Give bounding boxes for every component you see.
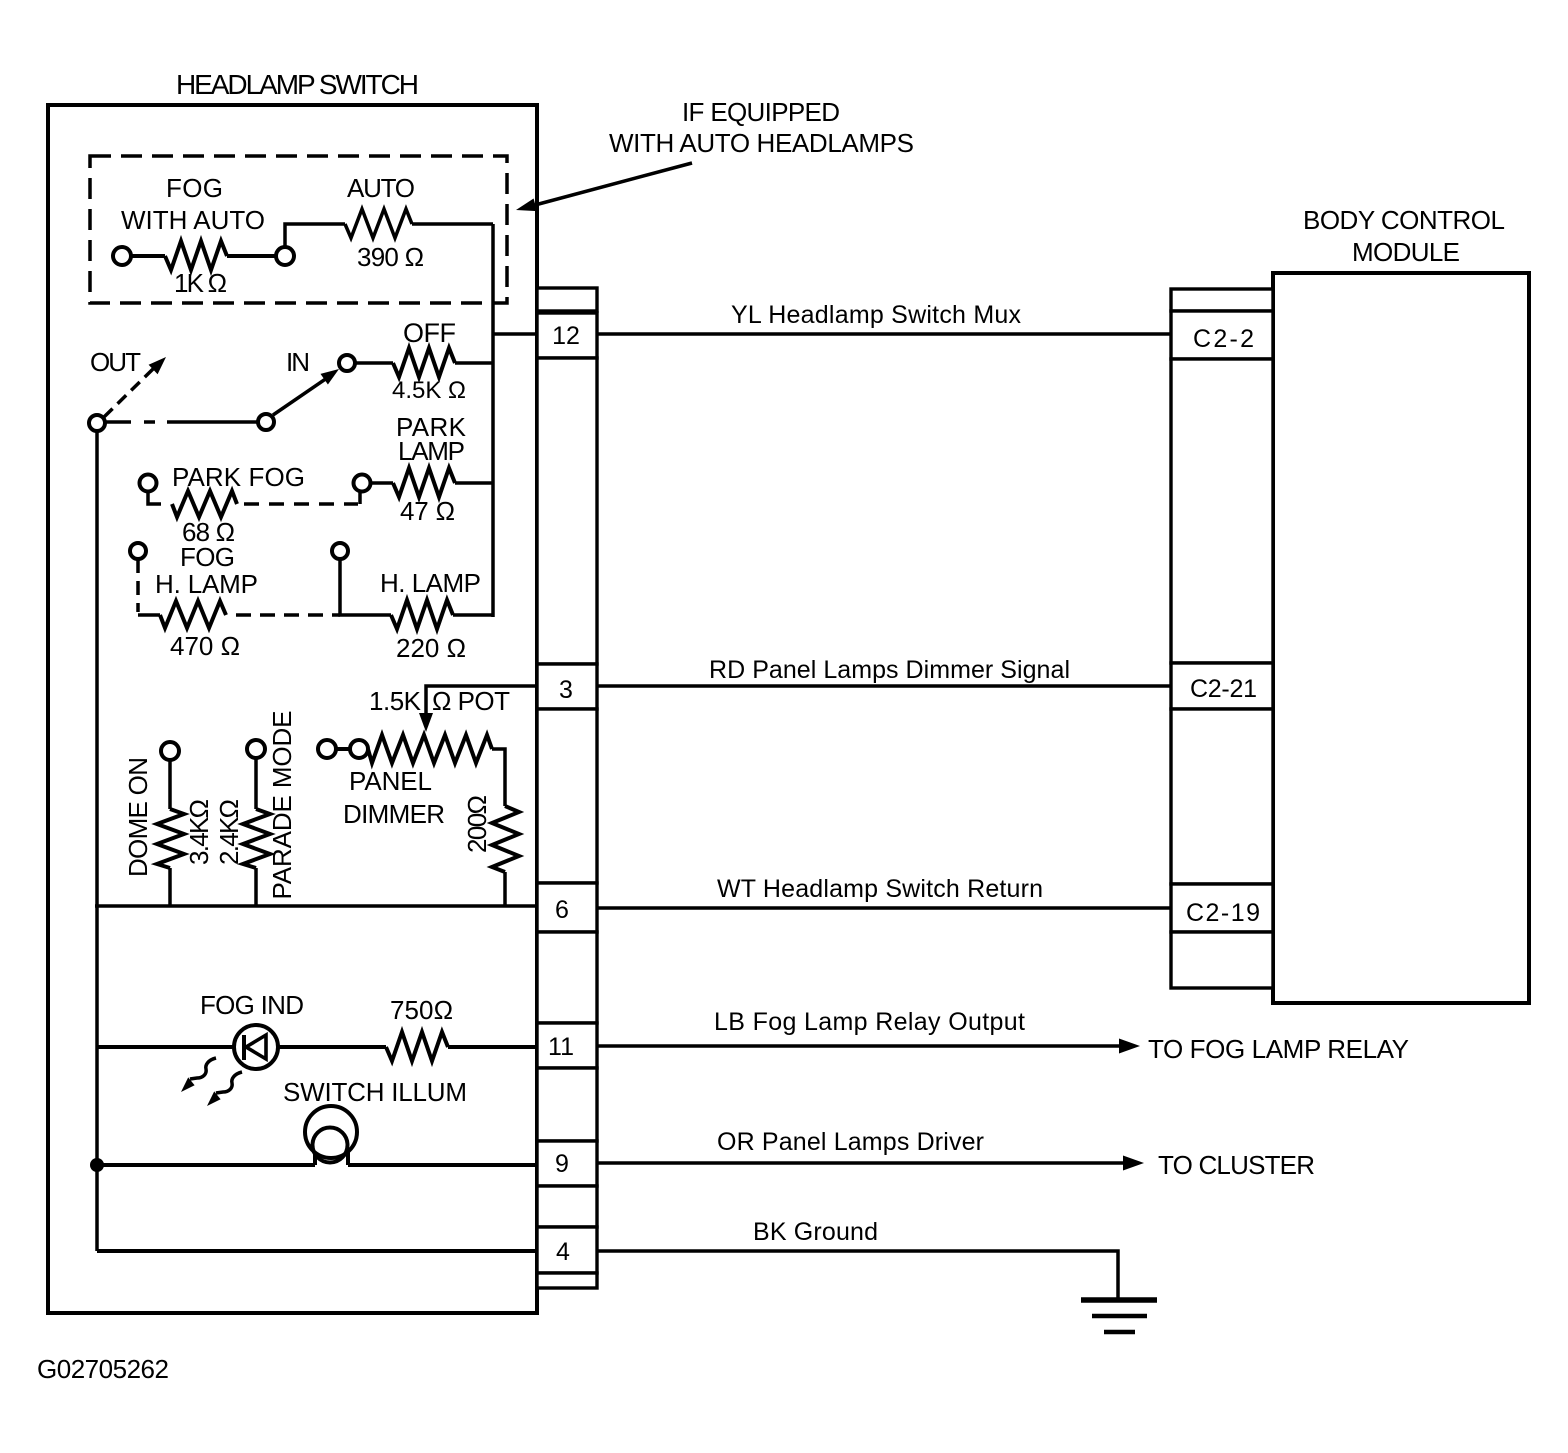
svg-text:TO FOG LAMP RELAY: TO FOG LAMP RELAY <box>1148 1034 1409 1064</box>
wire down from h lamp terminal <box>340 559 391 615</box>
svg-text:2.4KΩ: 2.4KΩ <box>214 799 244 865</box>
svg-text:4.5K Ω: 4.5K Ω <box>392 377 466 404</box>
svg-text:200Ω: 200Ω <box>462 795 492 853</box>
svg-text:YL Headlamp Switch Mux: YL Headlamp Switch Mux <box>731 301 1022 329</box>
connector segment <box>537 1186 597 1227</box>
svg-text:WT Headlamp Switch Return: WT Headlamp Switch Return <box>717 875 1043 903</box>
svg-text:LAMP: LAMP <box>398 436 465 466</box>
svg-text:OR Panel Lamps Driver: OR Panel Lamps Driver <box>717 1128 984 1156</box>
pot terminal circle right <box>350 740 368 758</box>
wire <box>453 613 493 617</box>
svg-text:SWITCH ILLUM: SWITCH ILLUM <box>283 1077 467 1107</box>
connector segment <box>537 709 597 883</box>
terminal circle park lamp <box>354 475 371 492</box>
BCM box <box>1273 273 1529 1003</box>
svg-text:C2-19: C2-19 <box>1186 899 1260 927</box>
svg-text:MODULE: MODULE <box>1352 237 1460 267</box>
terminal circle h lamp <box>332 543 348 559</box>
wire <box>278 1045 386 1049</box>
wire <box>254 868 258 906</box>
svg-text:Ω POT: Ω POT <box>432 686 510 716</box>
switch common vertical wire left <box>95 431 99 1251</box>
resistor 200 ohm <box>492 806 519 872</box>
BCM connector segment <box>1171 359 1273 663</box>
dashed corner <box>138 613 160 617</box>
annotation arrowhead <box>516 199 537 212</box>
parade terminal circle <box>247 740 265 758</box>
LED triangle <box>246 1035 266 1059</box>
svg-text:LB Fog Lamp Relay Output: LB Fog Lamp Relay Output <box>714 1008 1025 1036</box>
lamp stub left <box>313 1152 317 1165</box>
wire <box>97 1045 234 1049</box>
potentiometer resistor 1.5K <box>368 735 492 763</box>
svg-text:TO CLUSTER: TO CLUSTER <box>1158 1150 1315 1180</box>
svg-text:1K Ω: 1K Ω <box>174 268 227 298</box>
resistor 750 ohm <box>386 1032 448 1061</box>
svg-text:C2-2: C2-2 <box>1193 325 1254 353</box>
connector cap top <box>537 288 597 311</box>
ground symbol <box>1081 1297 1157 1303</box>
connector pin 4 <box>537 1227 597 1273</box>
resistor 68 ohm <box>172 491 237 517</box>
dashed auto-headlamps option box <box>90 156 507 303</box>
svg-text:6: 6 <box>555 896 569 924</box>
connector pin 9 <box>537 1141 597 1186</box>
resistor 1K ohm <box>165 241 227 270</box>
dashed wire 470 to h lamp <box>228 613 340 617</box>
wire <box>455 361 493 365</box>
connector segment <box>537 932 597 1023</box>
svg-text:FOG: FOG <box>180 542 235 572</box>
LED cathode bar <box>242 1035 246 1060</box>
connector segment <box>537 358 597 664</box>
switch OUT dashed throw arrow <box>104 369 153 417</box>
wire to pin 11 <box>448 1045 537 1049</box>
junction dot <box>90 1158 104 1172</box>
connector pin 12 <box>537 313 597 358</box>
wire <box>355 361 393 365</box>
wire LB fog lamp relay output <box>597 1044 1122 1048</box>
mux ladder vertical wire <box>491 224 495 617</box>
svg-text:WITH AUTO: WITH AUTO <box>121 205 265 235</box>
svg-text:HEADLAMP SWITCH: HEADLAMP SWITCH <box>176 69 419 100</box>
svg-text:12: 12 <box>552 322 580 350</box>
lamp base circle <box>313 1128 348 1163</box>
svg-text:4: 4 <box>556 1238 570 1266</box>
switch pole terminal circle <box>258 414 274 430</box>
resistor 4.5K ohm OFF <box>393 348 455 377</box>
wire <box>227 254 276 258</box>
wire RD panel lamps dimmer signal <box>597 684 1171 688</box>
svg-text:BODY CONTROL: BODY CONTROL <box>1303 205 1505 235</box>
BCM connector pin C2-19 <box>1171 884 1273 932</box>
svg-text:DOME ON: DOME ON <box>123 757 153 877</box>
wire <box>254 758 258 809</box>
svg-text:9: 9 <box>555 1150 569 1178</box>
svg-text:3: 3 <box>559 676 573 704</box>
BCM connector segment <box>1171 709 1273 884</box>
wire <box>455 481 493 485</box>
return bus wire to pin 6 <box>95 904 537 908</box>
dash-dot wire <box>106 420 131 424</box>
connector pin 3 <box>537 664 597 709</box>
wire to pin 12 <box>493 332 537 336</box>
connector pin 11 <box>537 1023 597 1068</box>
resistor 3.4K ohm <box>157 809 184 868</box>
terminal circle park fog <box>140 475 157 492</box>
BCM connector pin C2-2 <box>1171 311 1273 359</box>
dome terminal circle <box>161 742 179 760</box>
connector cap bottom <box>537 1273 597 1288</box>
resistor 2.4K ohm <box>243 809 270 868</box>
resistor 470 ohm <box>160 601 226 628</box>
BCM connector cap <box>1171 289 1273 311</box>
wire BK ground <box>597 1251 1118 1299</box>
wire YL headlamp switch mux <box>597 332 1171 336</box>
terminal circle fog h lamp <box>130 543 146 559</box>
svg-text:BK Ground: BK Ground <box>753 1218 878 1246</box>
LED indicator circle <box>234 1025 278 1069</box>
svg-text:DIMMER: DIMMER <box>343 799 445 829</box>
switch common terminal circle <box>89 415 105 431</box>
lamp bulb circle <box>305 1106 357 1158</box>
wire <box>97 1163 315 1167</box>
svg-text:1.5K: 1.5K <box>369 686 422 716</box>
svg-text:3.4KΩ: 3.4KΩ <box>184 799 214 865</box>
wire <box>371 481 393 485</box>
switch IN throw arrow <box>273 378 327 415</box>
resistor 47 ohm <box>393 468 455 497</box>
svg-text:WITH AUTO HEADLAMPS: WITH AUTO HEADLAMPS <box>609 128 914 158</box>
wire <box>336 747 350 751</box>
wiper arrowhead <box>419 713 433 732</box>
wire <box>412 222 493 226</box>
stub <box>148 491 161 504</box>
svg-text:PARADE MODE: PARADE MODE <box>267 711 297 900</box>
svg-text:FOG: FOG <box>166 173 223 203</box>
svg-text:FOG IND: FOG IND <box>200 990 304 1020</box>
wire WT headlamp switch return <box>597 906 1171 910</box>
svg-text:G02705262: G02705262 <box>37 1354 169 1384</box>
LED light ray arrow 1 <box>190 1058 216 1079</box>
headlamp switch enclosure box <box>48 105 537 1313</box>
wire <box>168 868 172 906</box>
svg-text:RD Panel Lamps Dimmer Signal: RD Panel Lamps Dimmer Signal <box>709 656 1070 684</box>
svg-text:H. LAMP: H. LAMP <box>380 568 481 598</box>
wire up to park lamp terminal <box>358 491 362 504</box>
terminal circle fog-with-auto right <box>276 247 294 265</box>
terminal circle fog-with-auto left <box>113 247 131 265</box>
BCM connector segment <box>1171 932 1273 988</box>
svg-text:470 Ω: 470 Ω <box>170 631 240 661</box>
dashed wire park fog to park lamp <box>244 502 358 506</box>
LED light ray arrow 2 <box>216 1072 242 1093</box>
resistor 390 ohm <box>345 209 412 238</box>
svg-text:750Ω: 750Ω <box>390 995 453 1025</box>
wire auto branch up <box>285 224 345 247</box>
svg-text:IN: IN <box>286 347 310 377</box>
resistor 220 ohm <box>391 600 453 629</box>
pot terminal circle left <box>318 740 336 758</box>
svg-text:11: 11 <box>548 1033 574 1061</box>
potentiometer wiper wire to pin 3 <box>426 686 537 716</box>
svg-text:220 Ω: 220 Ω <box>396 633 466 663</box>
lamp stub right <box>346 1152 350 1165</box>
connector segment <box>537 1068 597 1141</box>
svg-text:C2-21: C2-21 <box>1190 675 1257 703</box>
svg-text:IF EQUIPPED: IF EQUIPPED <box>682 97 840 127</box>
wire <box>131 254 165 258</box>
svg-text:OUT: OUT <box>90 347 141 377</box>
wire pot right elbow <box>492 749 505 806</box>
svg-text:H. LAMP: H. LAMP <box>155 569 258 599</box>
annotation arrow line <box>535 163 692 205</box>
svg-text:47 Ω: 47 Ω <box>400 496 455 526</box>
dashed stub down <box>136 559 140 612</box>
wire OR panel lamps driver <box>597 1161 1126 1165</box>
BCM connector pin C2-21 <box>1171 663 1273 709</box>
svg-text:PANEL: PANEL <box>349 766 432 796</box>
svg-text:AUTO: AUTO <box>347 173 415 203</box>
wire <box>168 760 172 809</box>
svg-text:390 Ω: 390 Ω <box>357 242 424 272</box>
svg-text:PARK FOG: PARK FOG <box>172 462 305 492</box>
wire 200 ohm to bus <box>503 872 507 906</box>
ground wire row <box>97 1249 537 1253</box>
switch IN terminal circle <box>339 355 355 371</box>
connector pin 6 <box>537 883 597 932</box>
